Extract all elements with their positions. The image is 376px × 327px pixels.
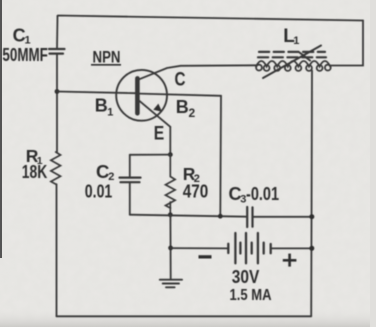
resistor R2: [166, 155, 176, 215]
node emitter/C2/R2 top: [168, 152, 173, 157]
node battery plus/right rail: [309, 246, 314, 251]
label battery minus: [199, 255, 212, 258]
label NPN: [91, 48, 121, 66]
capacitor C1: [49, 49, 65, 54]
inductor L1 adjust arrow: [263, 46, 321, 79]
svg-text:2: 2: [189, 106, 196, 120]
resistor R1: [51, 152, 61, 184]
svg-text:1: 1: [293, 35, 299, 47]
transistor collector lead: [139, 65, 256, 79]
node battery minus tee: [168, 246, 173, 251]
svg-text:1.5 MA: 1.5 MA: [230, 287, 272, 304]
svg-text:1: 1: [107, 106, 113, 118]
wire C3 right lead: [253, 216, 312, 218]
svg-text:18K: 18K: [22, 161, 48, 182]
node B1-rail: [55, 89, 60, 94]
inductor L1 coil: [256, 61, 331, 71]
svg-text:0.01: 0.01: [85, 180, 113, 201]
wire right lower rail: [310, 71, 313, 317]
wire ground stem: [169, 215, 171, 279]
wire B1: [57, 92, 136, 94]
wire left rail upper: [56, 16, 59, 49]
wire right upper rail: [331, 21, 364, 66]
transistor emitter lead: [139, 101, 170, 127]
ground: [160, 280, 182, 288]
node R2 bottom: [168, 212, 173, 217]
wire left rail lower: [56, 184, 58, 316]
label B2: [176, 97, 196, 120]
capacitor C3: [247, 207, 252, 227]
svg-text:B: B: [95, 95, 108, 115]
label B1: [95, 95, 114, 118]
capacitor C2: [120, 178, 141, 183]
label battery plus: [283, 254, 297, 267]
wire left rail middle: [56, 54, 58, 152]
transistor Q1 base bar: [135, 78, 140, 113]
wire B2 drop: [219, 96, 222, 216]
wire battery minus lead: [171, 247, 229, 249]
label C2: [96, 161, 114, 183]
svg-text:50MMF: 50MMF: [2, 45, 48, 65]
battery B1 30V: [228, 233, 270, 263]
label C3-0.01: [229, 184, 280, 206]
svg-text:C: C: [175, 70, 186, 91]
node C3/right rail: [309, 214, 314, 219]
wire C2-R2 top: [130, 154, 171, 156]
wire emitter drop: [169, 127, 171, 155]
wire battery plus lead: [271, 247, 312, 249]
transistor Q1 circle: [116, 70, 167, 121]
svg-text:E: E: [154, 123, 165, 144]
wire C2 bottom lead: [129, 182, 131, 214]
wire C2 top lead: [129, 155, 131, 177]
svg-text:-0.01: -0.01: [246, 184, 279, 204]
label R1: [26, 146, 43, 167]
wire bottom bus: [130, 215, 247, 217]
wire B2: [140, 94, 221, 96]
label R2: [183, 164, 200, 185]
transistor emitter arrowhead: [153, 104, 162, 112]
label C1: [13, 26, 31, 47]
svg-text:NPN: NPN: [93, 48, 121, 66]
wire top: [58, 16, 364, 21]
inductor L1 core dashes: [258, 52, 326, 57]
node B2 drop/bus: [218, 214, 223, 219]
svg-text:470: 470: [183, 180, 209, 201]
label L1: [283, 26, 299, 47]
svg-text:B: B: [176, 97, 189, 117]
svg-text:30V: 30V: [232, 266, 260, 287]
wire bottom: [57, 315, 312, 317]
